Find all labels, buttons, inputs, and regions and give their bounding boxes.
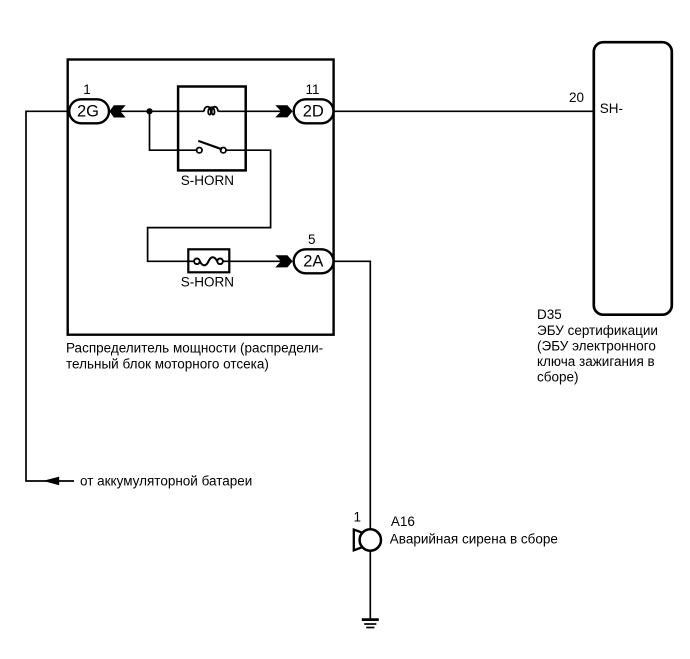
relay switch blade (198, 141, 222, 149)
arrow into 2D (right-pointing) (275, 105, 292, 117)
connector oval 2D (294, 99, 334, 123)
main box: power distribution box (68, 60, 334, 335)
svg-text:1: 1 (353, 510, 361, 525)
arrow into 2A (right-pointing) (275, 255, 292, 267)
svg-text:1: 1 (83, 82, 91, 97)
svg-text:Аварийная сирена в сборе: Аварийная сирена в сборе (390, 531, 558, 546)
svg-text:A16: A16 (391, 514, 415, 529)
arrow into 2G (left-pointing) (109, 105, 125, 117)
ground (362, 618, 379, 621)
relay box S-HORN (178, 87, 246, 171)
siren A16: body circle (360, 529, 381, 550)
relay switch contact right (221, 148, 226, 153)
fuse contact left (194, 259, 200, 265)
svg-text:D35: D35 (537, 307, 562, 322)
wire: 2A right, down to siren (334, 261, 371, 529)
svg-text:ЭБУ сертификации: ЭБУ сертификации (537, 323, 658, 338)
svg-text:сборе): сборе) (537, 369, 579, 384)
junction dot (146, 108, 152, 114)
fuse contact right (217, 259, 223, 265)
svg-text:ключа зажигания в: ключа зажигания в (537, 354, 655, 369)
battery feed arrow (left-pointing triangle) (43, 477, 59, 486)
svg-text:5: 5 (308, 232, 316, 247)
svg-text:SH-: SH- (600, 101, 623, 116)
svg-text:2A: 2A (303, 252, 323, 270)
wire: relay coil to 2D arrow (218, 110, 292, 112)
wire: siren to ground (369, 551, 371, 620)
svg-text:тельный блок моторного отсека): тельный блок моторного отсека) (66, 356, 269, 371)
svg-text:от аккумуляторной батареи: от аккумуляторной батареи (80, 474, 252, 489)
relay coil (204, 107, 218, 115)
svg-text:11: 11 (305, 82, 319, 97)
wire: switch to fuse (right, down, left, down, right) (148, 150, 271, 261)
svg-text:(ЭБУ электронного: (ЭБУ электронного (537, 338, 656, 353)
fuse internal wire stubs (188, 260, 194, 262)
svg-text:2D: 2D (303, 102, 324, 120)
svg-text:S-HORN: S-HORN (181, 173, 234, 188)
svg-text:2G: 2G (77, 102, 99, 120)
relay switch contact left (197, 148, 202, 153)
svg-text:20: 20 (569, 90, 584, 105)
svg-text:S-HORN: S-HORN (181, 274, 234, 289)
connector oval 2G (69, 99, 109, 123)
D35 ECU box (594, 42, 672, 315)
fuse wave element (200, 257, 218, 265)
svg-text:Распределитель мощности (распр: Распределитель мощности (распредели- (66, 341, 323, 356)
wire: 2D to D35 SH- pin (334, 110, 594, 112)
fuse box S-HORN (188, 249, 229, 272)
wire: 2G to battery (left, down, bottom arrow line) (26, 111, 74, 481)
wire: coil row from 2G arrow to relay coil (109, 110, 204, 112)
wire: junction drop to switch row (150, 111, 197, 150)
wire: fuse to 2A arrow (230, 260, 293, 262)
connector oval 2A (294, 249, 334, 273)
siren A16: horn (354, 530, 362, 551)
